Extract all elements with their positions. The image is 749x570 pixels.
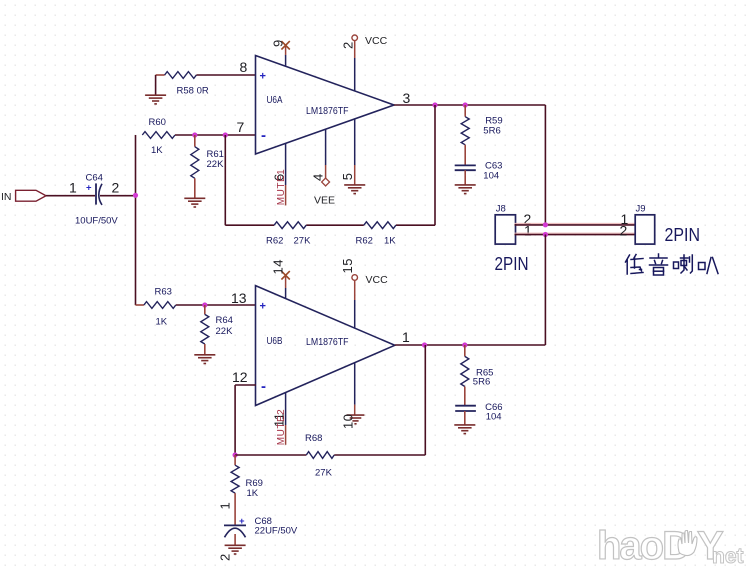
wire bottom junction to U6B output (544, 235, 546, 346)
x marker pin 9 (281, 41, 289, 49)
pin 6 MUTE1 (285, 143, 287, 205)
svg-text:J8: J8 (496, 204, 506, 215)
resistor R59 5R6 (461, 105, 469, 165)
pin 11 MUTE2 (285, 393, 287, 445)
svg-text:2PIN: 2PIN (665, 224, 701, 245)
wire output pin 3 (394, 104, 545, 106)
svg-text:7: 7 (237, 119, 245, 135)
node input junction (133, 193, 138, 198)
svg-text:LM1876TF: LM1876TF (306, 105, 349, 117)
resistor R69 1K (231, 455, 239, 525)
svg-text:1K: 1K (247, 488, 259, 499)
svg-text:MUTE2: MUTE2 (276, 409, 287, 445)
wire feedback bottom run (225, 224, 435, 226)
connector IN port (16, 190, 46, 201)
x marker pin 14 (281, 271, 289, 279)
ground at C68 (225, 545, 246, 554)
svg-text:13: 13 (231, 290, 247, 306)
svg-text:1: 1 (69, 180, 77, 196)
wire pin 12 down to feedback row (234, 385, 236, 455)
wire feedback down from pin 7 (224, 135, 226, 225)
svg-text:+: + (86, 183, 92, 194)
wire C66 to ground (464, 411, 466, 425)
svg-text:+: + (239, 516, 245, 527)
ground at C63 (455, 185, 476, 194)
wire C64 to input node (100, 195, 136, 197)
node bottom speaker junction (543, 232, 548, 237)
capacitor C64 (polarized 10UF/50V) (86, 183, 102, 205)
resistor R61 22K (191, 135, 199, 198)
resistor R62 1K (364, 222, 396, 229)
svg-text:4: 4 (311, 173, 326, 181)
svg-text:VEE: VEE (314, 195, 335, 207)
connector J9 2PIN (635, 215, 655, 244)
svg-text:14: 14 (271, 259, 286, 274)
svg-text:VCC: VCC (366, 274, 389, 286)
wire output pin 1 (395, 344, 546, 346)
svg-text:1: 1 (218, 502, 233, 510)
node R64 tap (202, 302, 207, 307)
svg-text:2: 2 (341, 41, 356, 49)
resistor R62 27K (274, 222, 306, 229)
resistor R64 22K (201, 305, 209, 354)
svg-text:R68: R68 (305, 433, 322, 444)
wire J8 pin1 to J9 pin2 (515, 233, 636, 235)
svg-text:J9: J9 (636, 204, 646, 215)
svg-text:15: 15 (340, 258, 355, 273)
pin 9 no-connect (285, 45, 287, 66)
svg-text:22K: 22K (207, 159, 225, 170)
resistor R63 1K (136, 302, 176, 309)
svg-text:LM1876TF: LM1876TF (306, 336, 349, 348)
node feedback tap pin7 (223, 132, 228, 137)
svg-text:5R6: 5R6 (473, 377, 490, 388)
capacitor C63 104 (455, 165, 476, 170)
node output-zobel junction B (462, 342, 467, 347)
node R61 tap (192, 132, 197, 137)
wire C63 to ground (464, 170, 466, 184)
svg-text:+: + (260, 301, 266, 313)
svg-text:C64: C64 (86, 173, 103, 184)
svg-text:U6B: U6B (267, 335, 283, 347)
svg-text:MUTE1: MUTE1 (276, 169, 287, 205)
wire pin 12 stub (235, 384, 256, 386)
svg-text:3: 3 (403, 90, 411, 106)
svg-text:5R6: 5R6 (483, 125, 500, 136)
label speaker Chinese text (626, 255, 644, 275)
watermark haoDIY.net (597, 524, 744, 568)
svg-text:R60: R60 (149, 117, 166, 128)
svg-text:9: 9 (271, 39, 286, 47)
svg-text:22K: 22K (216, 326, 234, 337)
svg-text:1K: 1K (384, 236, 396, 247)
svg-text:5: 5 (340, 172, 355, 180)
ground at R61 (184, 198, 205, 207)
wire IN to C64 (46, 195, 95, 197)
pin 10 ground pin (354, 363, 356, 415)
ground at C66 (454, 425, 475, 434)
svg-text:1: 1 (402, 329, 410, 345)
svg-text:104: 104 (483, 171, 499, 182)
connector J8 2PIN (495, 215, 515, 244)
wire R58 left to ground (155, 75, 157, 95)
svg-text:R64: R64 (216, 315, 233, 326)
svg-text:10: 10 (341, 414, 356, 429)
wire feedback up to output B (424, 345, 426, 455)
wire R58 to pin 8 (196, 74, 255, 76)
pin 5 ground pin (354, 119, 356, 185)
pin 4 VEE (322, 129, 330, 186)
capacitor C68 22UF/50V (224, 516, 246, 538)
svg-text:10UF/50V: 10UF/50V (75, 216, 118, 227)
pin 2 VCC (352, 35, 358, 91)
svg-text:U6A: U6A (267, 94, 283, 106)
svg-text:R58 0R: R58 0R (177, 86, 209, 97)
node output-feedback junction B (422, 342, 427, 347)
svg-text:-: - (261, 127, 266, 144)
svg-text:R62: R62 (266, 236, 283, 247)
svg-text:haoD: haoD (597, 524, 690, 568)
ground at pin 5 (344, 185, 365, 194)
wire output to J column (544, 105, 546, 225)
svg-text:1K: 1K (151, 145, 163, 156)
svg-text:104: 104 (486, 411, 502, 422)
wire feedback row B (235, 454, 425, 456)
wire R63 to pin 13 (176, 304, 256, 306)
svg-text:12: 12 (232, 369, 248, 385)
resistor R58 0R (156, 72, 197, 79)
wire feedback up to output (434, 105, 436, 225)
node output-feedback junction (432, 102, 437, 107)
svg-text:VCC: VCC (365, 35, 388, 47)
svg-text:1K: 1K (156, 317, 168, 328)
resistor R60 1K (142, 132, 175, 139)
pin 14 no-connect (285, 275, 287, 298)
svg-text:22UF/50V: 22UF/50V (255, 525, 298, 536)
pin 15 VCC (352, 275, 358, 329)
op-amp U6A LM1876TF (256, 56, 395, 155)
resistor R68 27K (306, 452, 334, 459)
node output-zobel junction (463, 102, 468, 107)
svg-text:27K: 27K (315, 468, 333, 479)
svg-text:2: 2 (620, 223, 628, 239)
wire input bus vertical (135, 135, 137, 305)
svg-text:27K: 27K (294, 236, 312, 247)
svg-text:-: - (261, 378, 266, 395)
resistor R65 5R6 (461, 345, 469, 405)
ground at R64 (194, 355, 215, 364)
capacitor C66 104 (455, 406, 476, 411)
svg-text:2PIN: 2PIN (495, 253, 529, 274)
svg-text:R62: R62 (356, 236, 373, 247)
wire C68 to ground (234, 534, 236, 545)
svg-text:IN: IN (1, 191, 12, 203)
svg-text:R63: R63 (155, 287, 172, 298)
svg-text:2: 2 (218, 553, 233, 561)
svg-text:net: net (712, 545, 744, 568)
ground at R58 (145, 95, 166, 104)
node feedback-R69 junction (233, 452, 238, 457)
wire J8 pin2 to J9 pin1 (515, 223, 636, 225)
svg-text:+: + (260, 71, 266, 83)
op-amp U6B LM1876TF (256, 286, 395, 406)
svg-text:2: 2 (112, 180, 120, 196)
node top speaker junction (543, 222, 548, 227)
wire R60 right to pin 7 (175, 134, 256, 136)
ground at pin 10 (347, 415, 365, 424)
svg-text:8: 8 (240, 59, 248, 75)
